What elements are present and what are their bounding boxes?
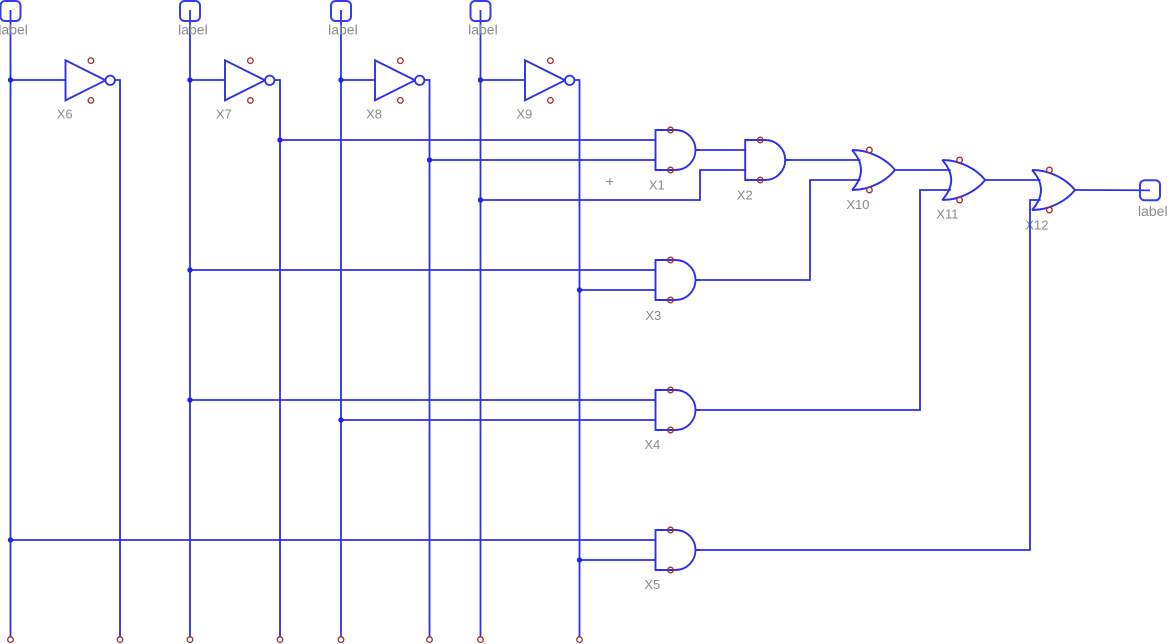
svg-text:label: label: [328, 22, 358, 38]
svg-text:label: label: [0, 22, 28, 38]
svg-text:X9: X9: [516, 106, 532, 121]
svg-text:X12: X12: [1025, 217, 1048, 232]
svg-text:X3: X3: [645, 308, 661, 323]
svg-text:label: label: [178, 22, 208, 38]
svg-text:label: label: [1138, 203, 1168, 219]
svg-text:X10: X10: [846, 197, 869, 212]
svg-text:X7: X7: [216, 106, 232, 121]
svg-text:X11: X11: [936, 207, 958, 222]
svg-text:X8: X8: [366, 106, 382, 121]
svg-text:X2: X2: [737, 188, 753, 203]
svg-text:label: label: [468, 22, 498, 38]
svg-text:X6: X6: [57, 106, 73, 121]
svg-text:+: +: [606, 173, 614, 189]
svg-text:X5: X5: [644, 577, 660, 592]
svg-text:X4: X4: [644, 437, 660, 452]
svg-text:X1: X1: [649, 178, 665, 193]
